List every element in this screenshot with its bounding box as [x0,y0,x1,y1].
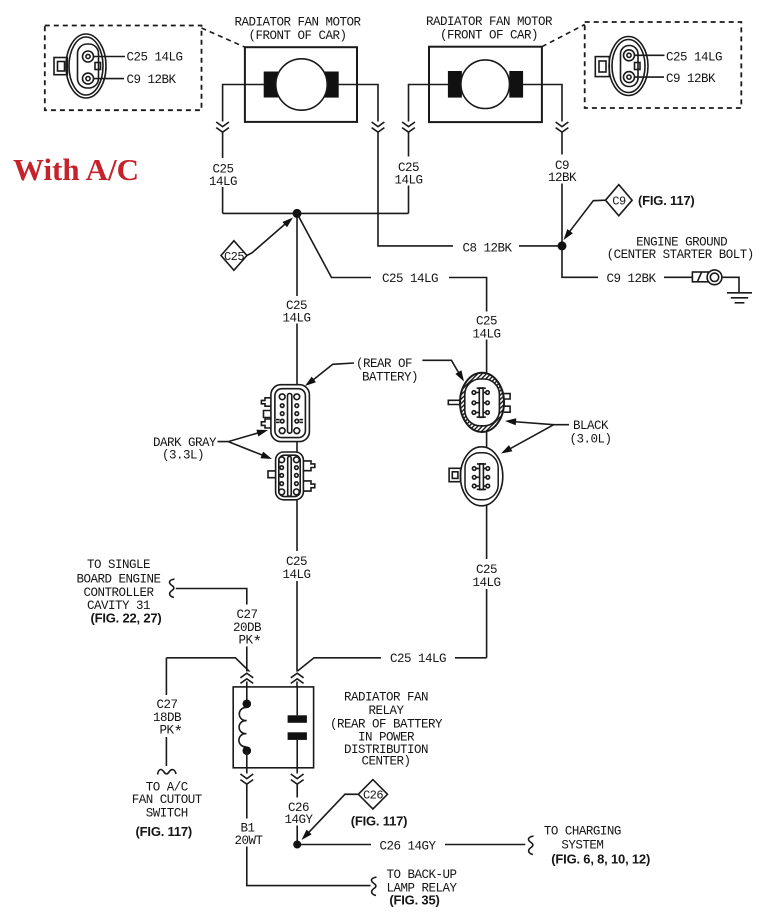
pin C25 left connector [83,51,94,62]
label C9 12BK on ground lead [598,270,664,287]
wire C25 14LG main left vertical from node A through connectors to relay [296,213,298,687]
dashed box around motor connector detail right [585,22,742,108]
svg-text:C25 14LG: C25 14LG [390,652,446,666]
continuation squiggle at controller wire [169,579,174,598]
svg-text:FAN CUTOUT: FAN CUTOUT [132,793,203,807]
junction node A dot [293,209,302,218]
wire C8 12BK motor1 right drop and horizontal run to ground junction [357,85,562,246]
svg-text:C25: C25 [224,250,244,264]
junction node C dot (charging junction) [293,841,301,849]
svg-text:C25 14LG: C25 14LG [666,51,722,65]
break symbol on motor2 right wire [554,122,570,133]
svg-text:C9: C9 [612,195,626,209]
svg-text:RADIATOR FAN MOTOR: RADIATOR FAN MOTOR [426,15,553,29]
relay box (radiator fan relay) [233,687,313,768]
svg-text:(FIG. 117): (FIG. 117) [351,814,408,829]
svg-text:(3.0L): (3.0L) [569,432,611,446]
svg-text:C25 14LG: C25 14LG [382,272,438,286]
svg-text:CONTROLLER: CONTROLLER [83,586,154,600]
svg-text:C25: C25 [476,315,497,329]
label C25 14LG on right branch vertical above relay [468,559,505,590]
svg-text:(FIG. 35): (FIG. 35) [389,893,439,908]
leader pin1 to label [94,56,126,58]
svg-text:RADIATOR FAN MOTOR: RADIATOR FAN MOTOR [234,16,361,30]
svg-text:BATTERY): BATTERY) [362,371,418,385]
svg-text:TO CHARGING: TO CHARGING [544,825,621,839]
svg-text:SWITCH: SWITCH [146,807,188,821]
svg-text:(FIG. 6, 8, 10, 12): (FIG. 6, 8, 10, 12) [551,852,650,867]
pin C9 left connector [83,73,94,84]
connector face detail right (2-way oval) [595,37,722,96]
svg-text:(FIG. 117): (FIG. 117) [136,824,193,839]
label C25 14LG on motor1 left wire [205,158,241,189]
pin C25 right connector [624,50,635,61]
label C25 14LG on lower crossover horizontal [381,649,455,666]
svg-text:(REAR OF BATTERY: (REAR OF BATTERY [330,718,443,732]
svg-text:CENTER): CENTER) [361,755,410,769]
wire junction bus at node A [223,212,409,214]
wire C25 14LG motor1 left drop [223,85,245,214]
radiator fan motor 2 [429,47,542,122]
label C9 12BK on motor2 right wire [544,155,580,186]
leader dark gray to connector L1 [218,430,269,442]
wire C25 14LG lower crossover into relay contact feed [292,658,487,676]
wire C26 14GY relay output to node C [296,768,298,845]
svg-text:C8 12BK: C8 12BK [462,242,512,256]
relay coil [239,687,251,768]
break symbol on motor1 left wire [215,122,231,133]
connector lock tab left [54,58,67,75]
label B1 20WT on back-up relay wire [230,819,267,849]
svg-text:C9 12BK: C9 12BK [666,72,716,86]
svg-text:RELAY: RELAY [368,704,404,718]
wire B1 20WT relay output to back-up lamp relay [247,768,371,886]
svg-text:C25: C25 [286,555,307,569]
dashed leader left box to motor1 [202,28,246,47]
svg-text:BOARD ENGINE: BOARD ENGINE [76,573,160,587]
wire C27 20DB PK from single board engine controller to relay coil [176,589,247,687]
pin C9 right connector [624,72,635,83]
ground symbol [727,293,752,303]
svg-text:C27: C27 [156,698,177,712]
leader pin2 to label [94,78,125,80]
continuation squiggle at A/C cutout wire end [158,769,177,774]
leader black to connector R1 [505,418,569,425]
break symbol on motor2 left wire [401,122,417,133]
svg-text:(REAR OF: (REAR OF [356,357,412,371]
engine coolant connector L2 (dark gray 3.3L lower) [268,452,315,500]
label C26 14GY on charging wire vertical [280,798,317,828]
svg-text:14LG: 14LG [394,174,422,188]
label C8 12BK on horizontal ground run [453,239,519,256]
leader dark gray to connector L2 [228,442,272,459]
label C26 14GY on charging horizontal [371,837,445,854]
svg-text:C25: C25 [476,563,497,577]
svg-text:TO SINGLE: TO SINGLE [87,558,150,572]
svg-text:14GY: 14GY [284,813,313,827]
wire C9 12BK ground junction to ring terminal and ground [562,246,692,277]
engine coolant connector R2 (black 3.0L lower) [449,447,503,506]
ring terminal at engine ground [692,270,721,285]
dashed leader motor2 to right box [542,25,585,47]
junction node B dot (ground junction) [558,241,567,250]
label C27 20DB PK* on coil feed wire [228,605,266,652]
label C25 14LG on motor2 left wire [391,157,427,188]
svg-text:12BK: 12BK [548,171,577,185]
svg-text:14LG: 14LG [282,568,310,582]
label C27 18DB PK* on A/C cutout wire [148,695,185,742]
connector symbol C25 diamond [221,218,293,271]
svg-text:TO BACK-UP: TO BACK-UP [386,868,456,882]
connector symbol C26 diamond [302,780,388,840]
svg-text:C25 14LG: C25 14LG [127,51,183,65]
svg-text:20WT: 20WT [234,834,263,848]
svg-text:SYSTEM: SYSTEM [561,839,603,853]
leader rear of battery to right connector [422,360,464,381]
svg-text:C27: C27 [236,608,257,622]
svg-text:14LG: 14LG [472,328,500,342]
svg-text:(FIG. 22, 27): (FIG. 22, 27) [90,611,161,626]
wire C9 12BK motor2 right drop to ground junction [542,85,562,246]
wire C25 14LG motor2 left drop [409,85,430,214]
svg-text:With A/C: With A/C [13,152,139,187]
dashed box around motor connector detail left [45,26,202,111]
svg-text:C26 14GY: C26 14GY [379,840,436,854]
wire C25 14LG branch from node A to right connector stack [297,213,487,657]
break symbol below relay contact terminal [289,774,305,785]
svg-text:BLACK: BLACK [573,419,609,433]
label C25 14LG on right branch vertical [468,312,505,342]
label C25 14LG on left vertical above relay [279,551,316,582]
connector lock tab right box [595,57,609,77]
connector symbol C9 diamond [564,185,633,240]
wire C26 14GY horizontal to charging system [297,844,525,846]
connector face detail left (2-way oval) [54,34,183,98]
leader pin1 to label [635,54,665,56]
wire C27 18DB from A/C cutout drop joining relay coil feed [166,658,252,675]
relay contacts [288,687,307,768]
svg-text:C9 12BK: C9 12BK [606,272,656,286]
continuation squiggle at charging wire end [528,836,533,855]
svg-text:14LG: 14LG [472,576,500,590]
radiator fan motor 1 [245,47,357,122]
break symbol below relay coil terminal [239,774,255,785]
break symbol above relay contact terminal [289,672,305,684]
svg-text:RADIATOR FAN: RADIATOR FAN [344,691,428,705]
svg-text:14LG: 14LG [282,312,310,326]
svg-text:(FRONT OF CAR): (FRONT OF CAR) [248,29,346,43]
wire C27 18DB PK vertical to A/C fan cutout switch [165,658,167,766]
leader pin2 to label [635,76,665,78]
svg-text:C9 12BK: C9 12BK [127,73,177,87]
svg-text:(FIG. 117): (FIG. 117) [638,193,695,208]
label C25 14LG on branch horizontal [371,270,449,287]
label C25 14LG on main left vertical below node A [279,296,316,326]
svg-text:14LG: 14LG [209,175,237,189]
engine coolant connector R1 (black 3.0L upper, sealed rim) [448,373,510,432]
continuation squiggle at back-up relay wire end [371,877,376,896]
svg-text:C26: C26 [363,789,383,803]
svg-text:(3.3L): (3.3L) [162,449,204,463]
leader rear of battery to left connector [305,363,354,386]
leader black to connector R2 [501,425,554,454]
break symbol on motor1 right wire [370,122,386,133]
engine coolant connector L1 (dark gray 3.3L upper) [261,385,309,442]
svg-text:(FRONT OF CAR): (FRONT OF CAR) [440,29,538,43]
break symbol above relay coil terminal [239,672,255,684]
svg-text:(CENTER STARTER BOLT): (CENTER STARTER BOLT) [607,248,754,262]
